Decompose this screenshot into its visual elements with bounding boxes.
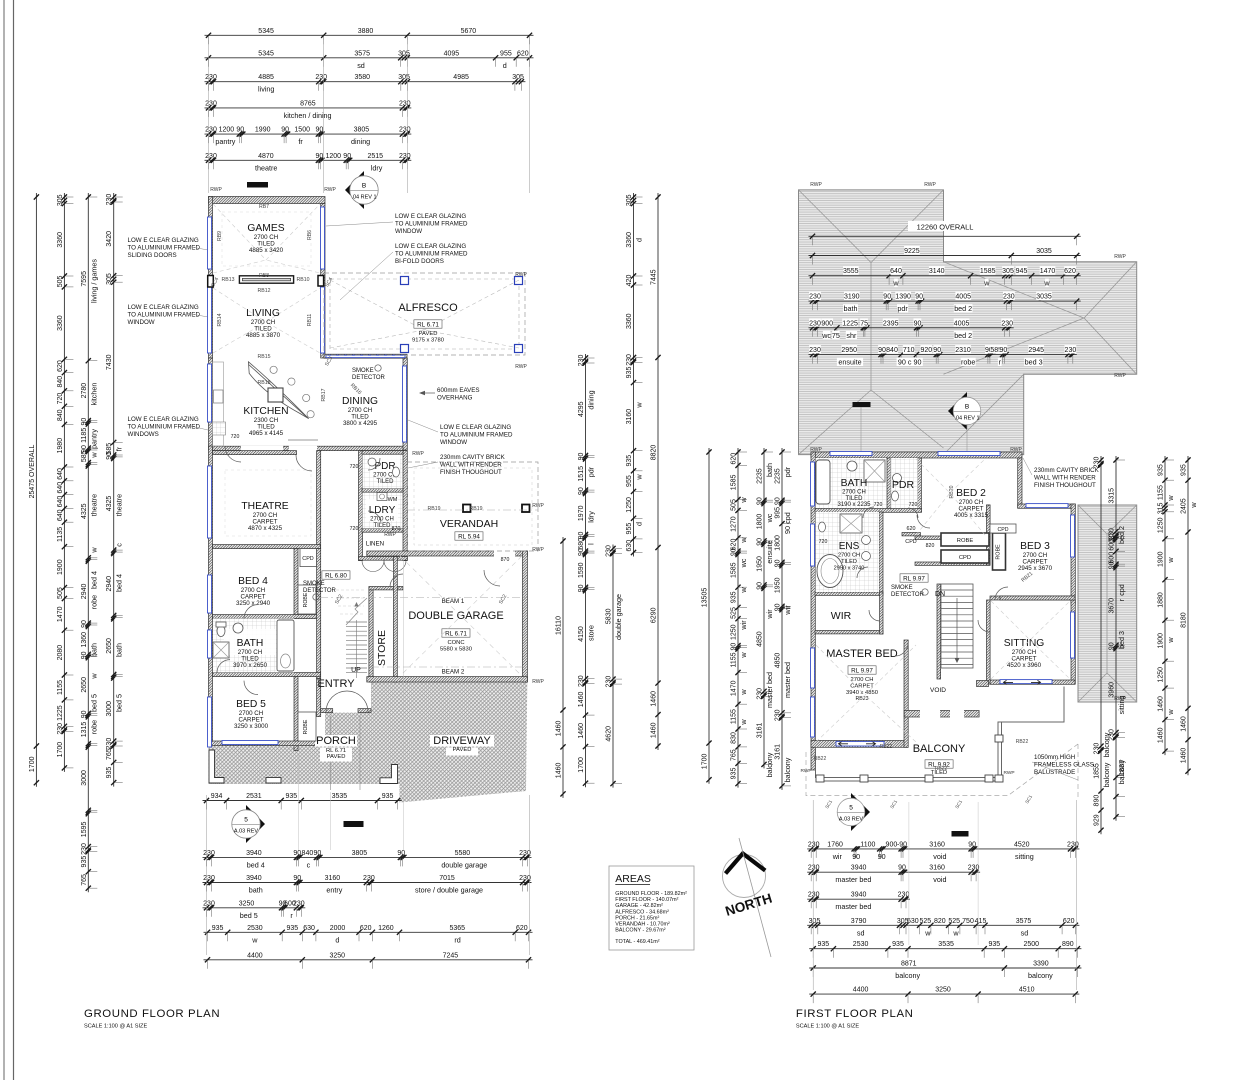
- door kitchen: [225, 446, 241, 462]
- dim chain ff-left-out: [775, 448, 793, 790]
- svg-text:wc: wc: [765, 513, 774, 523]
- svg-text:750: 750: [962, 918, 974, 925]
- wall gf garage top wall: [367, 551, 528, 556]
- window ff w sitting right: [1071, 612, 1075, 658]
- svg-text:RL 9.97: RL 9.97: [851, 667, 873, 674]
- svg-text:305: 305: [626, 194, 633, 206]
- wall gf hall wall right of robe: [317, 549, 321, 679]
- wall ff stair left wall: [937, 584, 941, 679]
- svg-text:RWP: RWP: [532, 547, 544, 553]
- label room driveway: [433, 735, 491, 747]
- svg-text:1100: 1100: [860, 841, 875, 848]
- svg-text:sd: sd: [357, 61, 365, 70]
- wall ff bath bottom wall: [815, 509, 922, 513]
- alfresco outline dashed: [324, 273, 525, 355]
- driveway label halo: [430, 735, 494, 747]
- svg-text:4005: 4005: [955, 294, 971, 301]
- door pdr: [368, 458, 380, 470]
- alfresco ceiling diagonals: [330, 280, 519, 348]
- svg-text:230: 230: [809, 320, 821, 327]
- svg-text:935: 935: [892, 941, 904, 948]
- svg-text:ROBE: ROBE: [303, 592, 309, 607]
- svg-text:LINEN: LINEN: [366, 541, 384, 548]
- wall gf bed4-robe wall: [294, 549, 298, 619]
- svg-text:1585: 1585: [731, 562, 738, 578]
- smoke detector gf1: [375, 365, 381, 371]
- door opening kitchen-hall: [241, 446, 283, 456]
- annotation note glazing dining: [440, 424, 513, 446]
- sheet border line outer: [3, 0, 5, 1080]
- svg-text:1700: 1700: [57, 742, 64, 758]
- svg-text:robe: robe: [89, 595, 98, 609]
- svg-text:600mm EAVES: 600mm EAVES: [437, 387, 480, 394]
- svg-text:AREAS: AREAS: [615, 873, 651, 885]
- svg-text:sd: sd: [857, 928, 865, 937]
- svg-text:A.03 REV: A.03 REV: [234, 829, 258, 835]
- svg-text:4510: 4510: [1019, 987, 1035, 994]
- svg-text:RB18: RB18: [258, 380, 271, 386]
- dim chain gf-top-5: [205, 127, 412, 147]
- svg-text:90: 90: [731, 548, 738, 556]
- svg-text:955: 955: [626, 475, 633, 487]
- svg-text:ROBE: ROBE: [957, 538, 974, 544]
- bed5 robe: [298, 712, 316, 741]
- wall gf pdr/ldry divider: [362, 489, 403, 493]
- entry double doors: [326, 691, 368, 712]
- svg-text:230mm CAVITY BRICK: 230mm CAVITY BRICK: [1034, 467, 1100, 474]
- svg-text:90: 90: [106, 452, 113, 460]
- svg-text:2700 CH: 2700 CH: [851, 677, 874, 683]
- svg-text:935: 935: [81, 856, 88, 868]
- svg-text:5345: 5345: [258, 28, 274, 35]
- svg-text:1260: 1260: [378, 925, 394, 932]
- svg-text:9175 x 3780: 9175 x 3780: [412, 337, 444, 343]
- ff ens basin2: [862, 552, 871, 561]
- svg-text:3575: 3575: [354, 50, 370, 57]
- svg-text:LIVING: LIVING: [246, 308, 280, 319]
- svg-text:765: 765: [106, 748, 113, 760]
- svg-text:SMOKE: SMOKE: [891, 585, 913, 591]
- dim chain gf-bot-4: [204, 925, 533, 945]
- svg-text:230: 230: [205, 153, 217, 160]
- svg-text:3160: 3160: [929, 865, 945, 872]
- svg-text:RB8: RB8: [259, 273, 269, 279]
- section bar gf bottom: [344, 821, 364, 827]
- svg-text:MASTER BED: MASTER BED: [826, 648, 898, 660]
- svg-text:c: c: [307, 860, 311, 869]
- svg-text:230: 230: [203, 900, 215, 907]
- svg-text:4965 x 4145: 4965 x 4145: [249, 430, 284, 437]
- svg-text:RWP: RWP: [924, 182, 936, 188]
- svg-text:LOW E CLEAR GLAZING: LOW E CLEAR GLAZING: [440, 424, 511, 431]
- wall gf left upper: [209, 197, 213, 359]
- wall gf entry left wall: [317, 679, 321, 717]
- label room pdr ff: [892, 479, 915, 491]
- svg-text:3190 x 2235: 3190 x 2235: [837, 502, 871, 508]
- svg-text:void: void: [933, 852, 946, 861]
- svg-text:5830: 5830: [606, 608, 613, 624]
- svg-text:230: 230: [1094, 457, 1101, 469]
- dim chain ff-top-3: [809, 266, 1081, 288]
- dim chain ff-left-fine: [731, 448, 749, 788]
- balcony rl: [925, 760, 953, 769]
- svg-text:4850: 4850: [757, 631, 764, 647]
- roof main hatched: [799, 190, 1137, 455]
- wall ff master bottom wall: [811, 741, 908, 748]
- svg-text:kitchen / dining: kitchen / dining: [284, 111, 332, 120]
- svg-text:1515: 1515: [578, 466, 585, 482]
- balcony post corner: [995, 775, 1003, 782]
- svg-text:WINDOW: WINDOW: [128, 319, 155, 326]
- svg-text:230: 230: [205, 127, 217, 134]
- svg-text:1250: 1250: [1158, 667, 1165, 683]
- svg-text:3250: 3250: [239, 900, 255, 907]
- dim chain gf-right-fine: [578, 354, 596, 787]
- svg-text:90: 90: [316, 127, 324, 134]
- svg-text:2531: 2531: [246, 793, 262, 800]
- svg-text:935: 935: [286, 925, 298, 932]
- svg-text:store: store: [587, 625, 596, 641]
- svg-text:3161: 3161: [775, 744, 782, 760]
- svg-text:3880: 3880: [358, 28, 374, 35]
- svg-text:GROUND FLOOR - 189.82m²: GROUND FLOOR - 189.82m²: [615, 891, 687, 897]
- svg-text:955: 955: [626, 523, 633, 535]
- label room wir: [831, 610, 852, 622]
- ff stairs: [941, 590, 973, 664]
- svg-text:sitting: sitting: [1015, 852, 1034, 861]
- svg-text:CPD: CPD: [302, 556, 313, 562]
- svg-text:3035: 3035: [1036, 294, 1052, 301]
- svg-text:dining: dining: [351, 137, 370, 146]
- svg-text:RB7: RB7: [259, 204, 269, 210]
- svg-text:2780: 2780: [81, 383, 88, 399]
- svg-text:840: 840: [886, 347, 898, 354]
- svg-text:90: 90: [852, 852, 860, 861]
- garage diagonal braces: [400, 556, 522, 676]
- games-living bulkhead beam: [239, 276, 293, 283]
- ff door sitting: [978, 620, 990, 632]
- svg-text:BEAM 1: BEAM 1: [442, 598, 465, 605]
- svg-text:230: 230: [1003, 294, 1015, 301]
- ff ens shower: [840, 514, 862, 533]
- svg-text:w: w: [952, 928, 959, 937]
- witness ff bottom mid: [977, 802, 979, 945]
- leader eaves arrow: [422, 392, 435, 394]
- svg-text:living: living: [258, 85, 274, 94]
- svg-text:bath: bath: [765, 463, 774, 477]
- svg-text:TO ALUMINIUM FRAMED: TO ALUMINIUM FRAMED: [440, 431, 513, 438]
- leader cavity gf: [408, 462, 438, 468]
- leader bifold: [340, 252, 393, 300]
- wall gf ldry/linen divider: [362, 529, 403, 533]
- wall gf store left wall: [369, 587, 373, 682]
- svg-text:3535: 3535: [938, 941, 954, 948]
- svg-text:3575: 3575: [1016, 918, 1032, 925]
- window w games right: [321, 207, 325, 269]
- svg-text:3670: 3670: [1109, 598, 1116, 614]
- svg-text:d: d: [335, 935, 339, 944]
- window w living left: [208, 287, 212, 353]
- door bath gf: [217, 660, 230, 673]
- svg-text:c: c: [115, 543, 124, 547]
- wall gf theatre bottom wall: [213, 545, 321, 549]
- svg-text:TO ALUMINIUM FRAMED: TO ALUMINIUM FRAMED: [128, 244, 201, 251]
- cpd theatre: [300, 549, 317, 567]
- svg-text:1360: 1360: [81, 632, 88, 648]
- svg-text:90: 90: [81, 651, 88, 659]
- wall ff bed3 top wall: [1018, 504, 1076, 508]
- svg-text:3940 x 4850: 3940 x 4850: [846, 690, 878, 696]
- svg-text:230: 230: [315, 74, 327, 81]
- wall ff pdr-bed2 wall: [917, 458, 921, 512]
- dim chain ff-top-4: [809, 292, 1081, 314]
- svg-text:230: 230: [203, 875, 215, 882]
- door opening dining-hall: [289, 446, 317, 456]
- svg-text:315: 315: [1158, 502, 1165, 514]
- svg-text:5580 x 5830: 5580 x 5830: [440, 646, 472, 652]
- svg-text:4400: 4400: [853, 987, 869, 994]
- svg-text:1270: 1270: [731, 516, 738, 532]
- ldry trough: [377, 493, 387, 501]
- svg-text:PAVED: PAVED: [453, 747, 472, 753]
- svg-text:230: 230: [808, 865, 820, 872]
- label room ldry 2: [369, 505, 396, 529]
- svg-text:SITTING: SITTING: [1004, 638, 1045, 649]
- svg-text:2940: 2940: [106, 576, 113, 592]
- door theatre: [296, 455, 312, 471]
- svg-text:RWP: RWP: [1114, 373, 1126, 379]
- svg-text:90: 90: [783, 526, 792, 534]
- svg-text:7595: 7595: [81, 271, 88, 287]
- svg-text:bed 3: bed 3: [1025, 358, 1043, 367]
- svg-text:3940: 3940: [246, 875, 262, 882]
- svg-text:BED 4: BED 4: [238, 576, 268, 587]
- svg-text:3315: 3315: [1109, 488, 1116, 504]
- section bar ff bottom: [952, 831, 969, 837]
- svg-text:LOW E CLEAR GLAZING: LOW E CLEAR GLAZING: [128, 304, 199, 311]
- svg-text:5: 5: [244, 817, 248, 824]
- dim chain ff-bot-1: [807, 841, 1079, 861]
- svg-text:bath: bath: [844, 304, 858, 313]
- svg-text:7245: 7245: [443, 952, 459, 959]
- dim chain gf-left-out: [106, 193, 124, 787]
- dim chain ff-bot-2: [807, 865, 980, 885]
- svg-text:1460: 1460: [651, 691, 658, 707]
- svg-text:230: 230: [205, 100, 217, 107]
- label room porch: [316, 735, 356, 747]
- witness line: [208, 40, 210, 193]
- svg-text:995: 995: [775, 507, 782, 519]
- wall gf bed4 bottom wall: [213, 615, 321, 619]
- window w dining right: [403, 366, 407, 442]
- svg-text:CONC: CONC: [447, 640, 464, 646]
- svg-text:720: 720: [57, 393, 64, 405]
- svg-text:wc: wc: [821, 331, 831, 340]
- witness ff bottom mid: [908, 802, 910, 945]
- svg-text:pantry: pantry: [215, 137, 235, 146]
- svg-text:1900: 1900: [57, 559, 64, 575]
- wall gf entry front wall r: [358, 709, 371, 713]
- svg-text:3960: 3960: [1109, 682, 1116, 698]
- svg-text:75: 75: [860, 320, 868, 327]
- svg-text:620: 620: [1063, 918, 1075, 925]
- window w bed5 left: [208, 697, 212, 747]
- svg-text:935: 935: [382, 793, 394, 800]
- leader to sliding doors: [186, 246, 208, 250]
- svg-text:90: 90: [883, 294, 891, 301]
- svg-text:BALCONY - 29.67m²: BALCONY - 29.67m²: [615, 928, 665, 934]
- dim chain gf-under: [203, 793, 402, 810]
- wall ff bed3 left wall: [987, 504, 991, 506]
- slider arrows sitting: [1004, 680, 1041, 684]
- svg-text:4325: 4325: [106, 496, 113, 512]
- wall gf alfresco sill: [324, 354, 407, 358]
- label room verandah: [440, 518, 498, 530]
- svg-text:890: 890: [1094, 795, 1101, 807]
- window w bath left: [208, 630, 212, 658]
- svg-text:RB15: RB15: [258, 354, 271, 360]
- dim chain ff-top-6: [809, 345, 1077, 367]
- svg-text:2700 CH: 2700 CH: [842, 489, 866, 495]
- svg-text:525: 525: [919, 918, 931, 925]
- svg-text:3160: 3160: [325, 875, 341, 882]
- svg-text:w: w: [89, 547, 98, 554]
- svg-text:935: 935: [626, 367, 633, 379]
- svg-text:4520: 4520: [1014, 841, 1030, 848]
- svg-text:2235: 2235: [775, 468, 782, 484]
- svg-text:620: 620: [360, 925, 372, 932]
- annotation note glazing windows left: [128, 416, 201, 438]
- svg-text:955: 955: [500, 50, 512, 57]
- svg-text:ROBE: ROBE: [996, 544, 1002, 560]
- svg-text:TO ALUMINIUM FRAMED: TO ALUMINIUM FRAMED: [128, 423, 201, 430]
- svg-text:wir: wir: [832, 852, 843, 861]
- svg-text:5670: 5670: [461, 28, 477, 35]
- wall ff sitting right wall: [1071, 600, 1075, 684]
- stairs gf: [346, 622, 367, 673]
- svg-text:VERANDAH: VERANDAH: [440, 518, 498, 530]
- svg-text:4520 x 3960: 4520 x 3960: [1007, 662, 1042, 669]
- svg-text:90: 90: [775, 603, 782, 611]
- svg-text:8871: 8871: [901, 961, 917, 968]
- svg-text:230: 230: [606, 676, 613, 688]
- svg-text:RB11: RB11: [307, 314, 313, 327]
- label room theatre: [241, 501, 288, 532]
- svg-text:1315: 1315: [81, 722, 88, 738]
- svg-text:1460: 1460: [578, 692, 585, 708]
- svg-text:1700: 1700: [578, 757, 585, 773]
- svg-text:90: 90: [314, 850, 322, 857]
- window ff w bed3 top: [1026, 504, 1068, 508]
- wall ff bed3 bottom wall: [1000, 596, 1075, 600]
- svg-text:830: 830: [731, 732, 738, 744]
- svg-text:A.03 REV: A.03 REV: [839, 817, 863, 823]
- dim chain gf-right-outer: [651, 193, 661, 750]
- svg-text:90: 90: [293, 875, 301, 882]
- svg-text:1155: 1155: [731, 652, 738, 667]
- svg-text:OVERHANG: OVERHANG: [437, 394, 473, 401]
- svg-text:525: 525: [731, 607, 738, 619]
- label room bed5: [234, 699, 269, 730]
- svg-text:1900: 1900: [1158, 633, 1165, 649]
- svg-text:230: 230: [519, 850, 531, 857]
- wall gf store right wall: [394, 557, 398, 682]
- svg-text:bath: bath: [115, 643, 124, 657]
- wall gf top: [209, 197, 326, 204]
- svg-text:230: 230: [606, 545, 613, 557]
- svg-text:d: d: [635, 522, 644, 526]
- wall gf games-living right: [321, 204, 325, 359]
- svg-text:1460: 1460: [1181, 716, 1188, 732]
- svg-text:master bed: master bed: [765, 672, 774, 708]
- svg-text:4870: 4870: [258, 153, 274, 160]
- svg-text:4620: 4620: [606, 726, 613, 742]
- svg-text:12260 OVERALL: 12260 OVERALL: [917, 223, 974, 232]
- window ff w bath top: [830, 452, 872, 456]
- svg-text:1837: 1837: [1117, 760, 1126, 776]
- window w living right: [321, 287, 325, 353]
- witness x403: [403, 560, 405, 850]
- svg-text:7430: 7430: [106, 354, 113, 370]
- svg-text:1760: 1760: [827, 841, 843, 848]
- alfresco RL box: [414, 320, 442, 329]
- section bar ff top: [853, 402, 871, 407]
- witness line: [529, 40, 531, 193]
- svg-text:store / double garage: store / double garage: [415, 886, 483, 895]
- svg-text:90: 90: [578, 548, 585, 556]
- svg-text:RB14: RB14: [217, 313, 223, 326]
- dim chain ff-bot-3: [807, 892, 910, 912]
- leader dining window: [408, 420, 438, 432]
- svg-text:BED 2: BED 2: [956, 488, 986, 499]
- ff cpd box: [941, 550, 989, 563]
- bed2 ceiling diagonals: [916, 459, 985, 535]
- svg-text:840: 840: [302, 850, 314, 857]
- svg-text:3970 x 2650: 3970 x 2650: [233, 662, 268, 669]
- svg-text:WINDOW: WINDOW: [440, 439, 467, 446]
- svg-text:RB9: RB9: [217, 231, 223, 241]
- svg-text:balcony: balcony: [895, 971, 920, 980]
- svg-text:820: 820: [934, 918, 946, 925]
- svg-text:585: 585: [81, 450, 88, 462]
- svg-text:4885: 4885: [258, 74, 274, 81]
- svg-text:230: 230: [363, 875, 375, 882]
- svg-text:870: 870: [501, 557, 510, 563]
- svg-text:620: 620: [731, 453, 738, 465]
- svg-text:SCALE 1:100 @ A1 SIZE: SCALE 1:100 @ A1 SIZE: [84, 1024, 147, 1030]
- garage beam dashdot: [320, 598, 527, 668]
- svg-text:PAVED: PAVED: [419, 331, 438, 337]
- svg-text:230: 230: [519, 875, 531, 882]
- svg-text:pdr: pdr: [587, 466, 596, 477]
- svg-text:sd: sd: [1021, 928, 1029, 937]
- leader window games: [326, 222, 393, 226]
- svg-text:4400: 4400: [247, 952, 263, 959]
- svg-text:4095: 4095: [444, 50, 460, 57]
- stair rail centerline: [356, 620, 358, 678]
- wall ff bath-pdr wall: [887, 458, 891, 512]
- svg-text:BALCONY: BALCONY: [913, 743, 966, 755]
- wall ff wir right: [880, 592, 883, 634]
- dim chain gf-left-fine: [57, 193, 74, 772]
- svg-text:90: 90: [915, 294, 923, 301]
- svg-text:1700: 1700: [702, 754, 709, 770]
- svg-text:SLIDING DOORS: SLIDING DOORS: [128, 252, 177, 259]
- wall gf bed5 bottom wall: [209, 741, 321, 746]
- pantry boxes: [213, 422, 226, 435]
- window ff w master left1: [811, 648, 815, 688]
- svg-text:90: 90: [1000, 347, 1008, 354]
